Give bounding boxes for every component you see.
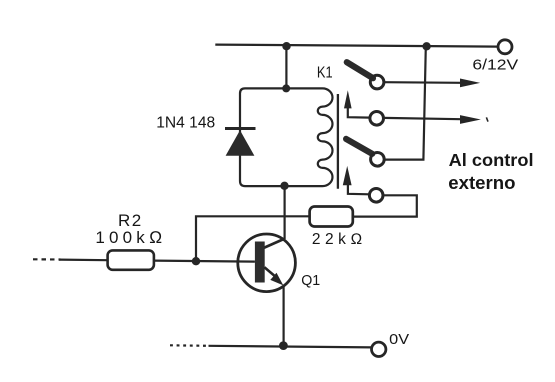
wire base stub dotted	[33, 258, 61, 260]
svg-text:6/12V: 6/12V	[472, 56, 518, 73]
terminal 6/12V	[498, 40, 512, 54]
svg-text:Q1: Q1	[301, 273, 320, 289]
relay K1 coil	[240, 88, 333, 186]
wire bottom rail dotted stub	[170, 344, 209, 347]
wire C2 to external	[384, 118, 461, 119]
svg-text:Al control: Al control	[449, 150, 534, 170]
wire collector to relay	[284, 186, 286, 239]
relay contact circle C1	[370, 75, 384, 89]
wire base left of R2	[59, 259, 108, 262]
arrowhead external 2	[460, 115, 481, 124]
armature arrow A1	[348, 108, 370, 118]
transistor Q1 emitter stroke	[264, 267, 276, 277]
armature arrow A2	[348, 185, 370, 195]
transistor Q1 emitter arrowhead	[270, 273, 283, 286]
diode 1N4148 cathode bar	[225, 127, 256, 130]
resistor 22k	[310, 207, 353, 227]
relay contact lever 2	[346, 139, 372, 154]
wire bottom rail	[209, 346, 372, 348]
diode 1N4148 triangle	[226, 130, 255, 155]
relay contact lever 1	[347, 62, 373, 78]
terminal 0V	[372, 342, 386, 356]
wire top supply rail	[215, 45, 498, 47]
relay contact circle C2	[370, 112, 384, 126]
relay contact circle C4	[369, 189, 383, 203]
svg-text:0V: 0V	[389, 331, 409, 348]
wire rail to relay coil top	[285, 46, 287, 88]
wire emitter	[283, 285, 285, 346]
node junction dot top rail / relay feed	[282, 42, 290, 50]
wire C1 to external	[384, 81, 461, 84]
wire 22k to contact C4	[353, 195, 417, 216]
relay contact circle C3	[371, 153, 385, 167]
tick mark	[486, 117, 488, 121]
svg-text:K1: K1	[317, 64, 333, 81]
svg-text:1N4 148: 1N4 148	[156, 115, 215, 132]
svg-text:externo: externo	[448, 172, 515, 193]
node junction dot relay top wire	[282, 84, 290, 92]
transistor Q1 collector stroke	[264, 239, 285, 248]
wire base node up to 22k resistor	[196, 216, 310, 261]
wire base right of R2	[154, 261, 255, 262]
resistor R2	[108, 250, 154, 269]
arrowhead external 1	[460, 79, 480, 88]
node junction dot base	[192, 257, 200, 265]
transistor Q1 circle	[238, 234, 296, 292]
node junction dot bottom rail	[279, 341, 288, 350]
node junction dot top rail right	[422, 42, 430, 50]
node junction dot relay bottom / collector	[280, 182, 288, 190]
relay core bar	[337, 94, 339, 189]
svg-text:R2: R2	[118, 211, 141, 230]
transistor Q1 base bar	[255, 242, 265, 283]
wire C3 to top rail	[384, 47, 426, 160]
